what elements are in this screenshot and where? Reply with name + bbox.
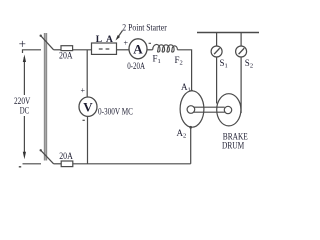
shaft — [187, 106, 232, 114]
ammeter polarity - — [149, 42, 151, 44]
svg-text:F2: F2 — [175, 55, 183, 67]
svg-text:F1: F1 — [153, 54, 161, 66]
switch bar (knife switch link) — [44, 33, 47, 161]
wire ammeter to field coil — [147, 49, 153, 51]
label BRAKE DRUM — [222, 132, 248, 151]
wire top-left from + to switch — [23, 50, 42, 53]
spring balance S2 — [236, 33, 247, 58]
fuse F bottom 20A — [59, 151, 73, 167]
brake drum — [217, 94, 241, 126]
svg-text:20A: 20A — [59, 50, 73, 60]
svg-text:+: + — [124, 38, 129, 47]
svg-text:DRUM: DRUM — [222, 142, 244, 152]
wire starter to ammeter — [117, 49, 130, 51]
wire fuse to starter box (voltmeter tap at x=87) — [73, 49, 92, 51]
svg-text:+: + — [81, 86, 86, 95]
spring balance S1 — [211, 33, 222, 58]
support beam — [197, 32, 259, 34]
svg-text:A: A — [133, 42, 143, 57]
supply dimension arrow — [23, 55, 26, 160]
svg-text:2 Point Starter: 2 Point Starter — [122, 23, 167, 33]
svg-text:L: L — [96, 35, 102, 45]
node A1 terminal dot — [190, 90, 193, 93]
svg-text:A2: A2 — [177, 128, 187, 140]
node A2 terminal dot — [189, 126, 192, 129]
wire bottom-left from switch to - terminal — [23, 163, 42, 165]
voltmeter branch wire bottom — [87, 116, 89, 163]
svg-text:S1: S1 — [220, 58, 228, 70]
svg-text:V: V — [83, 100, 93, 115]
wire switch to top fuse — [54, 49, 61, 51]
svg-text:A: A — [106, 35, 113, 45]
fuse F top 20A — [59, 46, 73, 61]
rope from S1 to drum — [216, 57, 218, 104]
voltmeter V — [79, 97, 97, 116]
wire coil to right corner down to armature — [177, 50, 191, 91]
svg-text:20A: 20A — [59, 151, 73, 161]
svg-text:0-300V MC: 0-300V MC — [98, 107, 133, 117]
rope from S2 to drum — [240, 57, 242, 113]
motor armature — [180, 91, 204, 127]
wire fuse to bottom switch — [54, 163, 62, 165]
switch blade bottom — [40, 149, 54, 164]
field winding coil F1-F2 — [153, 44, 178, 52]
voltmeter branch wire top — [86, 50, 88, 98]
positive supply terminal + — [19, 36, 26, 51]
label 220V DC — [14, 96, 31, 115]
negative supply terminal - — [19, 166, 21, 168]
svg-text:+: + — [19, 36, 26, 51]
svg-text:DC: DC — [20, 106, 29, 116]
svg-text:S2: S2 — [245, 58, 253, 70]
wire bottom right to fuse — [73, 163, 191, 165]
annotation 2 Point Starter with arrow — [116, 23, 167, 41]
voltmeter polarity - — [83, 119, 85, 121]
svg-text:0-20A: 0-20A — [127, 61, 145, 71]
switch blade top — [40, 35, 54, 50]
ammeter A 0-20A — [129, 39, 147, 59]
2 point starter box — [92, 43, 117, 54]
wire armature down to bottom wire — [190, 127, 192, 164]
